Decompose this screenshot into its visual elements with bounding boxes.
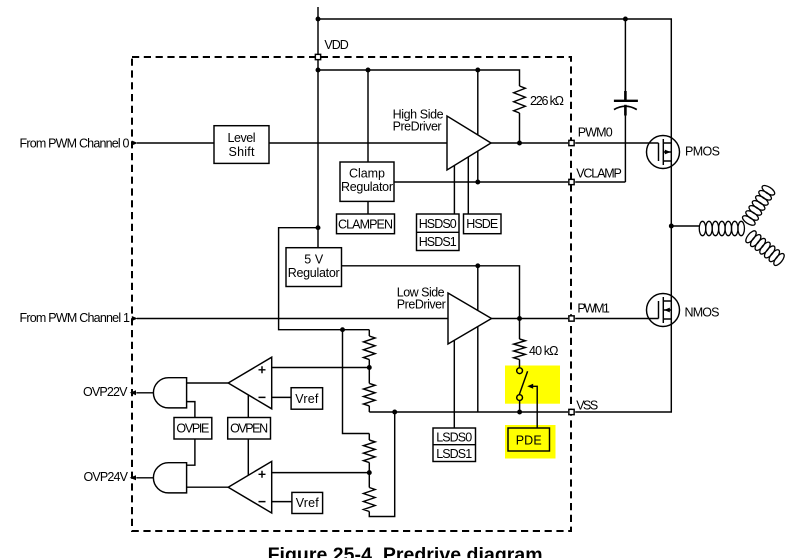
svg-text:PWM1: PWM1 xyxy=(577,302,609,316)
svg-text:PreDriver: PreDriver xyxy=(397,298,446,312)
svg-text:From PWM Channel 1: From PWM Channel 1 xyxy=(20,311,131,325)
svg-text:OVPIE: OVPIE xyxy=(176,422,209,436)
svg-text:OVPEN: OVPEN xyxy=(230,422,268,436)
svg-text:Figure 25-4. Predrive diagram: Figure 25-4. Predrive diagram xyxy=(268,544,543,558)
svg-text:NMOS: NMOS xyxy=(685,306,720,320)
svg-text:From PWM Channel 0: From PWM Channel 0 xyxy=(20,137,130,151)
svg-text:Shift: Shift xyxy=(229,145,256,159)
svg-text:LSDS1: LSDS1 xyxy=(436,447,472,461)
svg-text:VDD: VDD xyxy=(324,38,348,52)
svg-text:PWM0: PWM0 xyxy=(578,126,613,140)
svg-text:OVP24V: OVP24V xyxy=(84,470,129,484)
svg-text:PDE: PDE xyxy=(516,433,542,447)
svg-text:226 kΩ: 226 kΩ xyxy=(530,94,564,108)
svg-text:HSDE: HSDE xyxy=(466,217,498,231)
svg-text:HSDS1: HSDS1 xyxy=(419,235,457,249)
svg-text:VSS: VSS xyxy=(576,399,598,413)
svg-text:Regulator: Regulator xyxy=(341,180,393,194)
svg-text:Vref: Vref xyxy=(296,496,320,510)
svg-text:Regulator: Regulator xyxy=(288,266,340,280)
svg-text:HSDS0: HSDS0 xyxy=(419,217,457,231)
svg-text:VCLAMP: VCLAMP xyxy=(576,167,622,181)
svg-text:OVP22V: OVP22V xyxy=(83,385,128,399)
svg-text:CLAMPEN: CLAMPEN xyxy=(338,218,393,232)
svg-text:40 kΩ: 40 kΩ xyxy=(529,344,559,358)
svg-text:PMOS: PMOS xyxy=(685,145,720,159)
svg-text:LSDS0: LSDS0 xyxy=(436,430,472,444)
svg-text:5 V: 5 V xyxy=(304,252,324,266)
svg-text:PreDriver: PreDriver xyxy=(393,119,442,133)
svg-text:Level: Level xyxy=(228,131,256,145)
svg-text:Vref: Vref xyxy=(295,392,319,406)
svg-text:Clamp: Clamp xyxy=(349,166,385,180)
